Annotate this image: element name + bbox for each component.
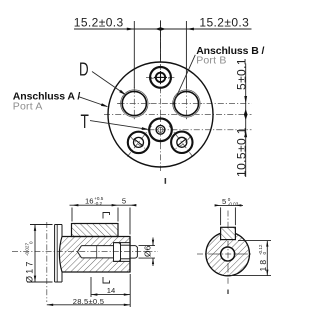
svg-text:5±0.1: 5±0.1 — [235, 58, 249, 90]
svg-text:18: 18 — [258, 258, 268, 272]
svg-text:5: 5 — [122, 196, 126, 205]
svg-text:16: 16 — [85, 196, 93, 205]
svg-text:28.5±0.5: 28.5±0.5 — [73, 297, 105, 306]
svg-text:10.5±0.1: 10.5±0.1 — [235, 127, 249, 177]
svg-text:15.2±0.3: 15.2±0.3 — [74, 16, 124, 30]
svg-text:14: 14 — [107, 286, 115, 295]
svg-text:Ø6: Ø6 — [143, 245, 153, 257]
svg-text:-0.2: -0.2 — [94, 201, 102, 206]
svg-text:D: D — [79, 59, 89, 80]
svg-text:-0.027: -0.027 — [25, 243, 30, 256]
svg-text:Ø17: Ø17 — [25, 259, 35, 283]
svg-text:5: 5 — [222, 197, 226, 206]
svg-text:T: T — [81, 111, 89, 133]
svg-text:15.2±0.3: 15.2±0.3 — [199, 16, 249, 30]
svg-text:-0.12: -0.12 — [258, 244, 263, 255]
svg-text:-0.03: -0.03 — [228, 202, 239, 207]
svg-text:Port B: Port B — [196, 55, 226, 67]
svg-text:Port A: Port A — [13, 101, 43, 113]
